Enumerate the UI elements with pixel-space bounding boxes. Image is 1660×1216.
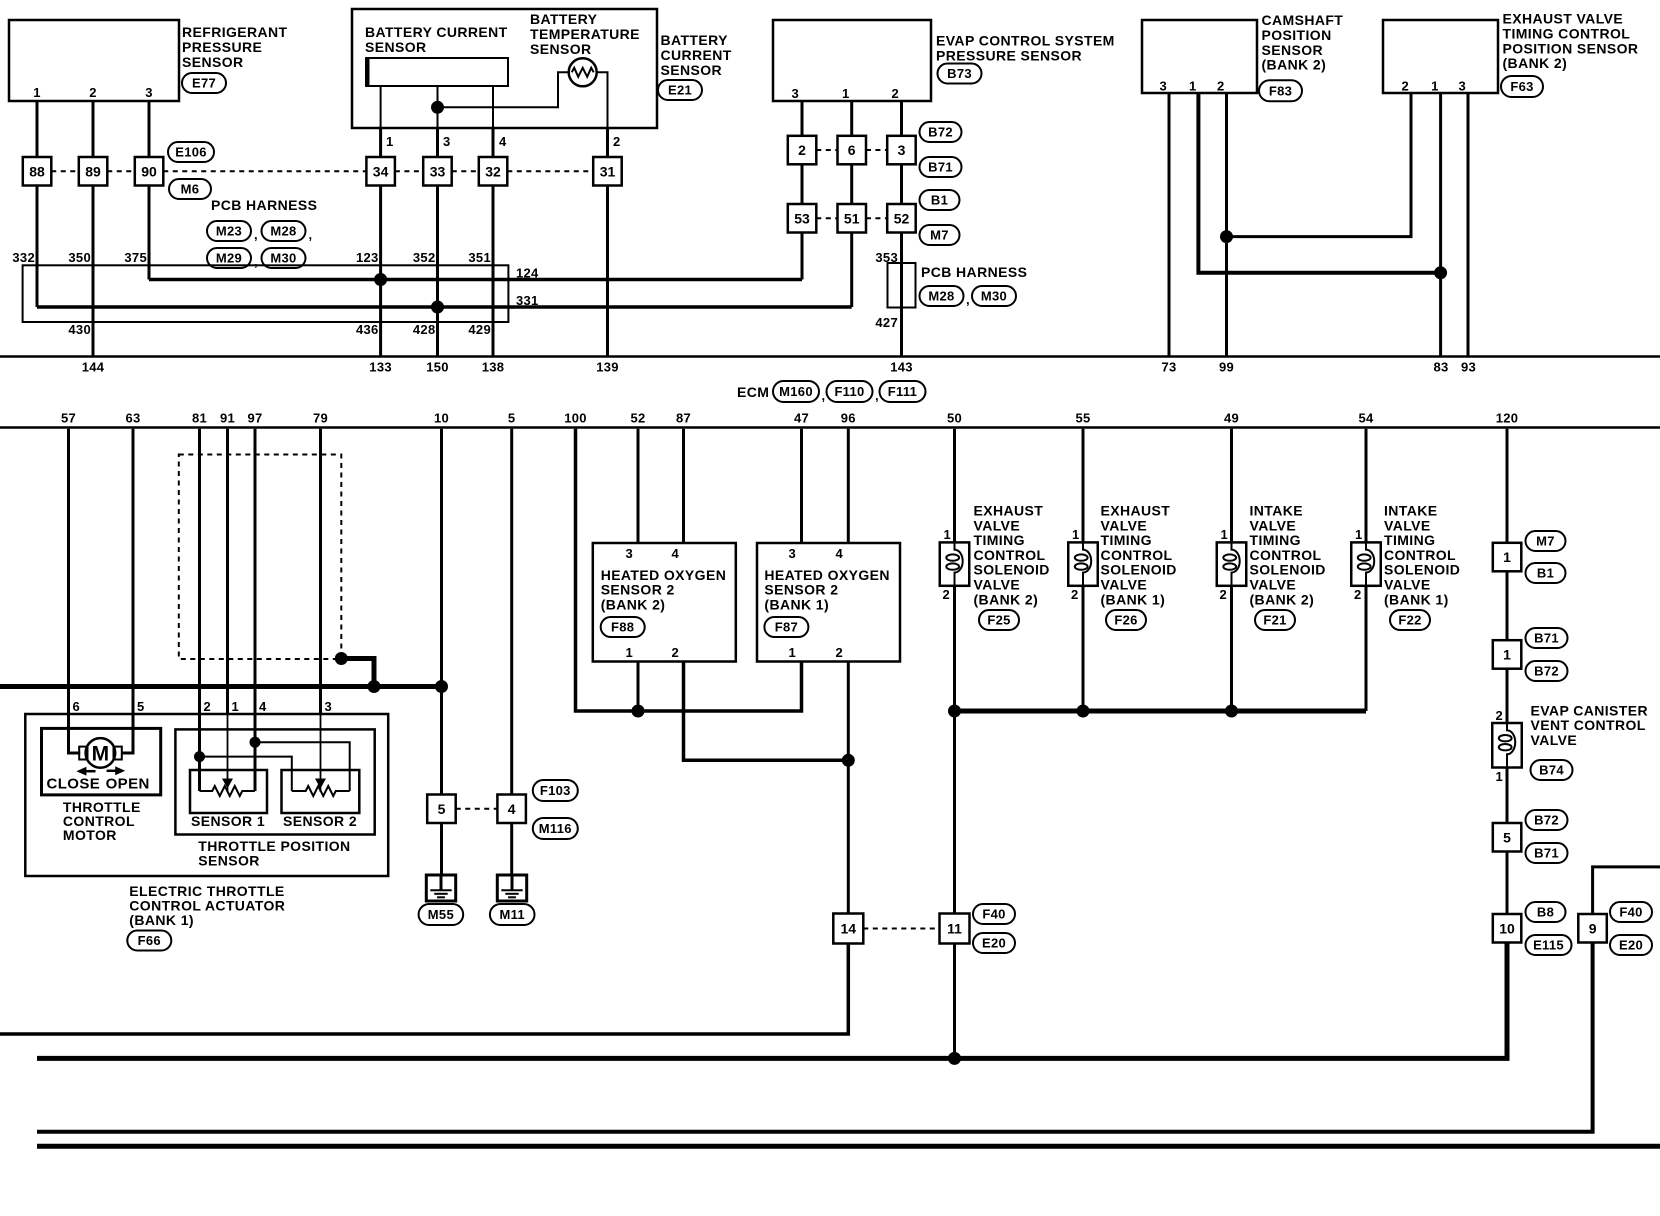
wire solenoid F25 pin2 down: [953, 586, 956, 711]
junction node F21/bus: [1225, 705, 1238, 718]
shield ground node: [335, 652, 348, 665]
svg-text:124: 124: [516, 266, 539, 281]
svg-text:(BANK 2): (BANK 2): [601, 596, 666, 612]
svg-text:CAMSHAFT: CAMSHAFT: [1262, 12, 1344, 28]
dashed connector row B72/B71: [816, 149, 837, 151]
svg-text:436: 436: [356, 322, 379, 337]
svg-text:3: 3: [625, 546, 633, 561]
svg-text:1: 1: [788, 645, 796, 660]
junction node F63 pin1 / F83 pin1: [1434, 266, 1447, 279]
motor symbol M: [86, 738, 116, 768]
svg-text:E106: E106: [175, 145, 207, 160]
svg-text:POSITION SENSOR: POSITION SENSOR: [1503, 40, 1639, 56]
dashed connector row F103/M116: [456, 808, 498, 810]
svg-text:5: 5: [508, 411, 516, 426]
svg-text:1: 1: [386, 134, 394, 149]
dashed connector row B1/M7: [816, 217, 837, 219]
svg-text:F25: F25: [987, 613, 1010, 628]
thermistor right lead wire: [597, 72, 608, 128]
connector label F88: [601, 617, 645, 637]
svg-text:(BANK 2): (BANK 2): [1262, 57, 1327, 73]
connector terminal 32: [479, 157, 508, 186]
connector label B71 (conn5): [1526, 843, 1568, 863]
wire bus to connector 11: [953, 711, 956, 914]
svg-text:SENSOR 2: SENSOR 2: [283, 813, 357, 829]
svg-text:1: 1: [625, 645, 633, 660]
svg-text:M160: M160: [779, 384, 813, 399]
svg-text:32: 32: [485, 163, 501, 179]
connector label M23: [207, 221, 251, 241]
connector label E77: [182, 73, 226, 93]
svg-text:M6: M6: [181, 182, 200, 197]
svg-text:M28: M28: [928, 289, 954, 304]
solenoid valve F21: [1217, 542, 1247, 585]
svg-text:100: 100: [564, 411, 587, 426]
wire connector4 to ground: [510, 823, 513, 875]
svg-text:E77: E77: [192, 76, 216, 91]
wire conn3 to conn52: [900, 164, 903, 204]
svg-text:TIMING CONTROL: TIMING CONTROL: [1503, 25, 1631, 41]
wire 139 connector 31 to ECM 139: [606, 186, 609, 356]
connector label F22: [1390, 610, 1430, 630]
svg-text:B73: B73: [947, 66, 972, 81]
wire sensor element pin3 (inside box): [437, 86, 439, 128]
svg-text:SENSOR 1: SENSOR 1: [191, 813, 265, 829]
svg-text:2: 2: [1219, 587, 1227, 602]
svg-text:6: 6: [73, 699, 81, 714]
svg-text:F26: F26: [1114, 613, 1137, 628]
svg-text:PCB HARNESS: PCB HARNESS: [921, 264, 1027, 280]
connector label B71: [920, 157, 962, 177]
svg-text:VALVE: VALVE: [1384, 517, 1431, 533]
connector label M28: [262, 221, 306, 241]
svg-text:SOLENOID: SOLENOID: [1250, 562, 1326, 578]
svg-text:(BANK 1): (BANK 1): [764, 596, 829, 612]
svg-text:M7: M7: [930, 228, 949, 243]
svg-text:2: 2: [1217, 79, 1225, 94]
svg-text:1: 1: [33, 85, 41, 100]
svg-text:1: 1: [1355, 527, 1363, 542]
svg-text:F22: F22: [1398, 613, 1421, 628]
svg-text:9: 9: [1589, 920, 1597, 936]
wire ECM 81 to TPS pin2: [198, 429, 201, 791]
connector terminal 53: [788, 204, 817, 233]
wire row 124: [149, 278, 802, 282]
wire 352/428 connector 33 to ECM 150: [436, 186, 439, 356]
svg-text:123: 123: [356, 250, 379, 265]
svg-text:1: 1: [232, 699, 240, 714]
svg-text:REFRIGERANT: REFRIGERANT: [182, 24, 288, 40]
open arrow: [115, 766, 125, 775]
wire ECM to solenoid F25: [953, 429, 956, 543]
connector label E20 (9): [1610, 935, 1652, 955]
wire B73 pin3 down: [801, 101, 804, 136]
wire sensor element pin1 (inside box): [380, 86, 382, 128]
svg-text:3: 3: [788, 546, 796, 561]
dashed connector line 14-11: [863, 928, 939, 930]
svg-text:47: 47: [794, 411, 809, 426]
ground label M55: [419, 904, 464, 925]
connector label B74: [1531, 760, 1573, 780]
wire ECM 79 to TPS pin3 wiper: [319, 429, 322, 714]
svg-text:351: 351: [468, 250, 491, 265]
svg-text:1: 1: [1220, 527, 1228, 542]
svg-text:VALVE: VALVE: [1101, 577, 1148, 593]
svg-text:81: 81: [192, 411, 207, 426]
wire F63 pin3 to ECM 93: [1467, 93, 1470, 356]
svg-text:49: 49: [1224, 411, 1239, 426]
svg-text:1: 1: [1495, 769, 1503, 784]
svg-text:3: 3: [443, 134, 451, 149]
wire 51 down to row 331 corner: [850, 233, 853, 308]
connector label M7: [920, 225, 960, 245]
svg-text:63: 63: [125, 411, 140, 426]
svg-text:M28: M28: [270, 224, 296, 239]
svg-text:31: 31: [600, 163, 616, 179]
ground symbol M11: [497, 875, 526, 901]
svg-text:VALVE: VALVE: [1384, 577, 1431, 593]
junction node shield/bus: [368, 680, 381, 693]
connector label F87: [764, 617, 808, 637]
camshaft position sensor box F83: [1142, 20, 1257, 93]
close arrow: [76, 767, 86, 776]
svg-text:,: ,: [966, 292, 970, 307]
svg-text:429: 429: [468, 322, 491, 337]
wire E77 pin2 to connector 89: [92, 101, 95, 157]
svg-text:50: 50: [947, 411, 962, 426]
svg-text:B72: B72: [928, 125, 953, 140]
svg-text:53: 53: [794, 210, 810, 226]
wire pin1 to connector 34: [379, 128, 382, 157]
svg-text:F40: F40: [982, 907, 1005, 922]
svg-text:EVAP CANISTER: EVAP CANISTER: [1531, 703, 1648, 719]
connector label M30 (EVAP branch): [972, 286, 1016, 306]
svg-text:4: 4: [835, 546, 843, 561]
svg-text:4: 4: [259, 699, 267, 714]
connector label E21: [658, 80, 702, 100]
svg-text:VENT CONTROL: VENT CONTROL: [1531, 717, 1646, 733]
svg-text:OPEN: OPEN: [106, 776, 150, 793]
svg-text:55: 55: [1075, 411, 1090, 426]
motor right brush terminal: [114, 747, 122, 760]
svg-text:350: 350: [68, 250, 91, 265]
svg-text:2: 2: [613, 134, 621, 149]
svg-text:M: M: [92, 743, 110, 766]
wire 350/430 connector 89 to ECM 144: [92, 186, 95, 356]
svg-text:139: 139: [596, 360, 619, 375]
wire conn6 to conn51: [850, 164, 853, 204]
connector label M7 (chain): [1526, 531, 1566, 551]
connector terminal 10: [1493, 914, 1522, 943]
svg-text:79: 79: [313, 411, 328, 426]
svg-text:CONTROL: CONTROL: [1101, 547, 1173, 563]
svg-text:VALVE: VALVE: [1250, 517, 1297, 533]
svg-text:EXHAUST: EXHAUST: [974, 503, 1044, 519]
wire F88 pin1 down: [637, 662, 640, 712]
connector label F63: [1501, 76, 1543, 97]
svg-text:352: 352: [413, 250, 436, 265]
svg-text:34: 34: [373, 163, 389, 179]
refrigerant pressure sensor box E77: [9, 20, 179, 101]
svg-text:375: 375: [124, 250, 147, 265]
wire 351/429 connector 32 to ECM 138: [492, 186, 495, 356]
wire B73 pin2 down: [900, 101, 903, 136]
svg-text:SENSOR: SENSOR: [661, 62, 723, 78]
svg-text:B72: B72: [1534, 664, 1559, 679]
wire F63 pin2 link: [1227, 93, 1412, 237]
wire connector 9 to bottom line: [37, 943, 1593, 1132]
svg-text:120: 120: [1496, 411, 1519, 426]
wire ECM 10 to ground M55: [440, 429, 443, 687]
svg-text:SENSOR: SENSOR: [530, 41, 592, 57]
connector label B8: [1526, 902, 1566, 922]
solenoid valve F22: [1351, 542, 1381, 585]
svg-text:F110: F110: [834, 384, 864, 399]
ground label M11: [490, 904, 535, 925]
wire E77 pin1 to connector 88: [36, 101, 39, 157]
junction node bottom bus / connector 11: [948, 1052, 961, 1065]
wire solenoid F21 pin2 down: [1230, 586, 1233, 711]
svg-text:10: 10: [434, 411, 449, 426]
svg-text:EXHAUST: EXHAUST: [1101, 503, 1171, 519]
connector terminal 14: [833, 914, 863, 944]
svg-text:M116: M116: [539, 821, 572, 836]
svg-text:(BANK 2): (BANK 2): [974, 591, 1039, 607]
svg-text:89: 89: [85, 163, 101, 179]
svg-text:B72: B72: [1534, 813, 1559, 828]
wire connector10 to bottom bus corner: [37, 943, 1507, 1059]
connector label B1 (chain): [1526, 563, 1566, 583]
svg-text:(BANK 1): (BANK 1): [129, 912, 194, 928]
svg-text:E20: E20: [982, 936, 1006, 951]
ground symbol M55: [426, 875, 455, 901]
svg-text:SENSOR 2: SENSOR 2: [764, 582, 838, 598]
ECM bottom bus line: [0, 426, 1660, 429]
svg-text:PRESSURE SENSOR: PRESSURE SENSOR: [936, 48, 1082, 64]
svg-text:91: 91: [220, 411, 235, 426]
svg-text:5: 5: [438, 801, 446, 817]
svg-text:(BANK 2): (BANK 2): [1503, 55, 1568, 71]
svg-text:CONTROL: CONTROL: [1384, 547, 1456, 563]
connector label M116: [533, 818, 578, 839]
ground bus (left): [0, 684, 442, 689]
wire connector5 to ground: [440, 823, 443, 875]
svg-text:VALVE: VALVE: [1101, 517, 1148, 533]
electric throttle control actuator box F66: [25, 714, 388, 876]
svg-text:EVAP CONTROL SYSTEM: EVAP CONTROL SYSTEM: [936, 33, 1115, 49]
svg-text:SOLENOID: SOLENOID: [1384, 562, 1460, 578]
svg-text:F66: F66: [138, 933, 161, 948]
wire ECM 96 to F87 pin4: [847, 429, 850, 543]
svg-text:CONTROL: CONTROL: [974, 547, 1046, 563]
svg-text:INTAKE: INTAKE: [1384, 503, 1437, 519]
svg-text:2: 2: [1401, 79, 1409, 94]
wire pin2 to connector 31: [606, 128, 609, 157]
wire E77 pin3 to connector 90: [148, 101, 151, 157]
junction node wire81/sensor2 left: [194, 751, 205, 762]
svg-text:TIMING: TIMING: [1384, 532, 1435, 548]
junction node on sensor pin 3 wire: [431, 101, 444, 114]
wire F87 pin2 down: [847, 662, 850, 914]
svg-text:3: 3: [1159, 79, 1167, 94]
svg-text:(BANK 1): (BANK 1): [1101, 591, 1166, 607]
connector label B73: [938, 64, 982, 84]
wire solenoid F22 pin2 down: [1365, 586, 1368, 711]
junction node bus/wire10: [435, 680, 448, 693]
connector label F66: [127, 931, 171, 951]
svg-text:B8: B8: [1537, 905, 1554, 920]
svg-text:POSITION: POSITION: [1262, 27, 1332, 43]
connector terminal 89: [79, 157, 108, 186]
dashed connector line E106/M6 row: [51, 170, 79, 172]
svg-text:427: 427: [875, 315, 898, 330]
connector terminal 34: [366, 157, 395, 186]
svg-text:5: 5: [1503, 829, 1511, 845]
svg-text:2: 2: [798, 142, 806, 158]
connector label F83: [1259, 80, 1302, 101]
svg-text:6: 6: [848, 142, 856, 158]
svg-text:11: 11: [947, 921, 962, 937]
wire ECM 47 to F87 pin3: [800, 429, 803, 543]
svg-text:143: 143: [890, 360, 913, 375]
svg-text:F63: F63: [1510, 79, 1533, 94]
svg-text:TIMING: TIMING: [974, 532, 1025, 548]
svg-text:M29: M29: [216, 251, 242, 266]
svg-text:PCB HARNESS: PCB HARNESS: [211, 197, 317, 213]
svg-text:B71: B71: [1534, 846, 1559, 861]
svg-text:14: 14: [841, 921, 857, 937]
svg-text:3: 3: [145, 85, 153, 100]
svg-text:SOLENOID: SOLENOID: [1101, 562, 1177, 578]
throttle position sensor box: [175, 729, 374, 834]
svg-text:CLOSE: CLOSE: [47, 776, 101, 793]
connector label F26: [1106, 610, 1146, 630]
svg-text:BATTERY: BATTERY: [530, 11, 598, 27]
connector label M160: [773, 381, 819, 402]
svg-text:F111: F111: [888, 384, 917, 399]
EVAP control system pressure sensor box B73: [773, 20, 931, 101]
connector terminal 90: [135, 157, 164, 186]
svg-text:3: 3: [791, 86, 799, 101]
svg-text:VALVE: VALVE: [1250, 577, 1297, 593]
svg-text:PRESSURE: PRESSURE: [182, 39, 262, 55]
svg-text:F103: F103: [540, 783, 571, 798]
svg-text:83: 83: [1433, 360, 1448, 375]
svg-text:96: 96: [841, 411, 856, 426]
svg-text:SENSOR: SENSOR: [182, 54, 244, 70]
wire F83 pin2 to ECM 99: [1225, 93, 1228, 356]
thermistor left lead wire: [438, 72, 569, 107]
connector label F103: [533, 780, 578, 801]
svg-text:CURRENT: CURRENT: [661, 47, 732, 63]
svg-text:93: 93: [1461, 360, 1476, 375]
connector terminal 88: [23, 157, 52, 186]
wire row 331: [37, 305, 852, 309]
wire ECM to solenoid F22: [1365, 429, 1368, 543]
wire F83 pin1 right-angle to junction: [1198, 93, 1440, 273]
svg-text:B1: B1: [931, 193, 948, 208]
svg-text:BATTERY: BATTERY: [661, 32, 729, 48]
solenoid valve F26: [1068, 542, 1098, 585]
connector label M28 (EVAP branch): [920, 286, 964, 306]
svg-text:133: 133: [369, 360, 392, 375]
svg-text:F88: F88: [611, 620, 634, 635]
svg-text:(BANK 2): (BANK 2): [1250, 591, 1315, 607]
svg-text:M23: M23: [216, 224, 242, 239]
wire right edge to connector 9: [1593, 867, 1660, 914]
svg-text:,: ,: [822, 388, 826, 403]
heated oxygen sensor 2 bank 2 box F88: [593, 543, 736, 662]
svg-text:VALVE: VALVE: [974, 517, 1021, 533]
svg-text:1: 1: [1503, 647, 1511, 663]
junction node wire97/sensor2 right: [250, 737, 261, 748]
connector label F40 (11): [973, 904, 1015, 924]
junction node row331 / wire 33: [431, 301, 444, 314]
throttle control motor box: [42, 728, 161, 795]
svg-text:87: 87: [676, 411, 691, 426]
svg-text:TEMPERATURE: TEMPERATURE: [530, 26, 640, 42]
wire pin4 to connector 32: [492, 128, 495, 157]
svg-text:428: 428: [413, 322, 436, 337]
wire valve to connector 5: [1506, 768, 1509, 824]
svg-text:M30: M30: [981, 289, 1007, 304]
wire connector 11 to bottom bus: [953, 944, 956, 1059]
svg-text:E21: E21: [668, 83, 692, 98]
svg-text:SENSOR: SENSOR: [365, 39, 427, 55]
wire ECM to solenoid F21: [1230, 429, 1233, 543]
svg-text:2: 2: [671, 645, 679, 660]
junction node F83 pin2 / F63 pin2: [1220, 230, 1233, 243]
wire 123/436 connector 34 to ECM 133: [379, 186, 382, 356]
connector label E115: [1526, 935, 1572, 955]
junction node F26/bus: [1077, 705, 1090, 718]
wire 375 connector 90 down to row 124: [148, 186, 151, 280]
svg-text:HEATED OXYGEN: HEATED OXYGEN: [601, 567, 727, 583]
svg-text:3: 3: [325, 699, 333, 714]
junction node F25/bus: [948, 705, 961, 718]
svg-text:,: ,: [254, 254, 258, 269]
svg-text:73: 73: [1161, 360, 1176, 375]
svg-text:M55: M55: [428, 907, 454, 922]
connector label E106: [168, 142, 214, 162]
svg-text:150: 150: [426, 360, 449, 375]
connector terminal 9: [1578, 914, 1607, 943]
connector label F25: [979, 610, 1019, 630]
connector terminal 52: [887, 204, 916, 233]
connector label M29: [207, 248, 251, 268]
shield dashed box around TPS wires: [179, 455, 341, 660]
svg-text:VALVE: VALVE: [974, 577, 1021, 593]
svg-text:ECM: ECM: [737, 384, 769, 400]
wire ECM to solenoid F26: [1082, 429, 1085, 543]
svg-text:TIMING: TIMING: [1250, 532, 1301, 548]
shield drain wire: [341, 659, 374, 687]
sensor 1 resistor: [200, 786, 256, 796]
battery current sensor element: [366, 58, 508, 86]
svg-text:(BANK 1): (BANK 1): [1384, 591, 1449, 607]
connector label E20 (11): [973, 933, 1015, 953]
svg-text:1: 1: [1189, 79, 1197, 94]
junction node row124 / wire 34: [374, 273, 387, 286]
svg-text:INTAKE: INTAKE: [1250, 503, 1303, 519]
heated oxygen sensor 2 bank 1 box F87: [757, 543, 900, 662]
EVAP canister vent control valve solenoid B74: [1492, 723, 1522, 768]
connector label F110: [827, 381, 873, 402]
svg-text:3: 3: [898, 142, 906, 158]
svg-text:88: 88: [29, 163, 45, 179]
wire F83 pin3 to ECM 73: [1168, 93, 1171, 356]
svg-text:4: 4: [671, 546, 679, 561]
